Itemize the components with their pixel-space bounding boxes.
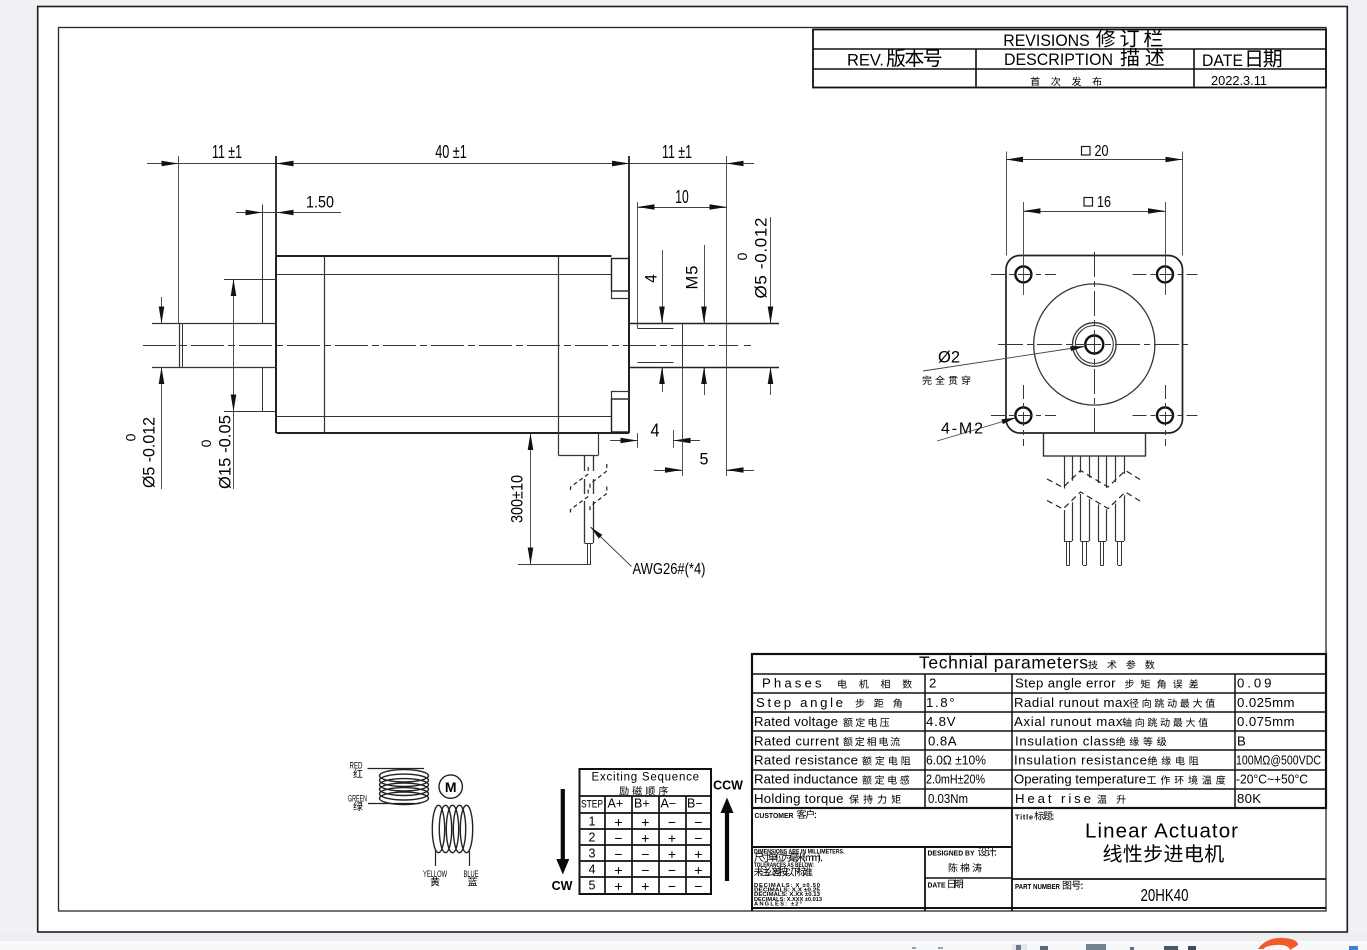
svg-text:Linear Actuator: Linear Actuator bbox=[1085, 820, 1238, 843]
dimension 11±1 screw stub length bbox=[612, 142, 744, 476]
svg-text:Insulation resistance: Insulation resistance bbox=[1014, 753, 1147, 768]
svg-text:−: − bbox=[641, 862, 649, 878]
svg-text:+: + bbox=[641, 830, 649, 846]
svg-text:0.075mm: 0.075mm bbox=[1237, 714, 1295, 729]
svg-text:+: + bbox=[614, 878, 622, 894]
svg-text:4: 4 bbox=[642, 274, 661, 283]
svg-text:Ø2: Ø2 bbox=[938, 348, 960, 367]
dimension Φ15 -0.05 boss diameter bbox=[198, 279, 236, 489]
rear boss bottom bbox=[612, 392, 630, 433]
title block grid bbox=[752, 808, 1326, 911]
svg-text:−: − bbox=[614, 846, 622, 862]
svg-text:+: + bbox=[694, 862, 702, 878]
svg-text:−: − bbox=[694, 830, 702, 846]
mounting hole centerlines bbox=[991, 275, 1198, 447]
svg-text:4.8V: 4.8V bbox=[926, 714, 956, 729]
wire lead RED bbox=[350, 761, 425, 778]
label Φ2 完全贯穿 with leader bbox=[922, 346, 1085, 385]
front view centerlines bbox=[998, 252, 1188, 433]
tolerance notes cell bbox=[754, 849, 845, 908]
wire break marks bbox=[571, 464, 607, 516]
rear boss top bbox=[612, 259, 630, 299]
svg-text:−: − bbox=[694, 878, 702, 894]
svg-text:80K: 80K bbox=[1237, 791, 1261, 806]
svg-text:Technial parameters: Technial parameters bbox=[919, 652, 1088, 672]
svg-text:Operating temperature: Operating temperature bbox=[1014, 772, 1146, 787]
svg-text:Insulation class: Insulation class bbox=[1015, 733, 1116, 748]
wire lead BLUE bbox=[464, 851, 479, 886]
svg-text:2: 2 bbox=[929, 676, 936, 691]
svg-text:PART NUMBER: PART NUMBER bbox=[1015, 882, 1061, 891]
svg-text:0: 0 bbox=[734, 252, 750, 260]
svg-text:CCW: CCW bbox=[713, 779, 743, 793]
revisions header DATE日期 bbox=[1202, 49, 1281, 70]
exciting sequence title bbox=[592, 772, 700, 796]
dimension 1.50 boss thickness bbox=[236, 193, 341, 216]
svg-text:3: 3 bbox=[589, 847, 596, 861]
revisions table grid bbox=[813, 30, 1326, 88]
svg-text:+: + bbox=[668, 846, 676, 862]
motor body inner silhouette lines bbox=[277, 257, 612, 456]
svg-text:5: 5 bbox=[700, 450, 709, 469]
svg-text:−: − bbox=[694, 814, 702, 830]
svg-text:+: + bbox=[668, 830, 676, 846]
winding diagram phase B coil bbox=[432, 805, 472, 852]
front wires lower 4 leads bbox=[1064, 494, 1125, 566]
svg-text:+: + bbox=[641, 878, 649, 894]
dimension 4 collar length bottom bbox=[610, 421, 700, 449]
svg-text:6.0Ω ±10%: 6.0Ω ±10% bbox=[926, 753, 986, 768]
dimension □20 plate size bbox=[1006, 143, 1183, 256]
svg-text:REVISIONS: REVISIONS bbox=[1003, 31, 1090, 50]
svg-text:+: + bbox=[614, 862, 622, 878]
svg-text:0.09: 0.09 bbox=[1237, 676, 1272, 691]
svg-text:DESCRIPTION: DESCRIPTION bbox=[1004, 51, 1113, 69]
svg-text:−: − bbox=[641, 846, 649, 862]
dimension 11±1 shaft length bbox=[147, 142, 754, 324]
dimension Φ5 -0.012 shaft diameter left bbox=[123, 297, 165, 489]
svg-text:1.50: 1.50 bbox=[306, 193, 334, 212]
svg-text:0: 0 bbox=[123, 433, 139, 441]
dimension 5 screw tip length bbox=[654, 367, 754, 476]
svg-text:CUSTOMER: CUSTOMER bbox=[755, 811, 795, 820]
exciting sequence header row bbox=[581, 796, 703, 810]
svg-text:16: 16 bbox=[1097, 194, 1111, 211]
svg-text:4-M2: 4-M2 bbox=[941, 421, 983, 438]
bottom taskbar strip bbox=[0, 933, 1367, 950]
svg-text:A+: A+ bbox=[608, 796, 624, 810]
svg-text:0.025mm: 0.025mm bbox=[1237, 695, 1295, 710]
svg-text:100MΩ@500VDC: 100MΩ@500VDC bbox=[1236, 753, 1321, 768]
label 4-M2 with leader bbox=[937, 418, 1017, 442]
svg-text:YELLOW: YELLOW bbox=[423, 869, 447, 879]
svg-text:4: 4 bbox=[589, 863, 596, 877]
svg-text:11 ±1: 11 ±1 bbox=[212, 142, 242, 162]
svg-text:Rated current: Rated current bbox=[754, 733, 839, 748]
dimension Φ5 -0.012 screw diameter right bbox=[734, 217, 773, 395]
svg-text:A−: A− bbox=[661, 796, 677, 810]
front wire housing block bbox=[1044, 433, 1146, 456]
svg-text:ANGLES: ±2°: ANGLES: ±2° bbox=[754, 901, 803, 907]
front view center hole Φ2 bbox=[1085, 336, 1103, 354]
svg-text:+: + bbox=[614, 814, 622, 830]
svg-text:Ø5 -0.012: Ø5 -0.012 bbox=[141, 417, 159, 488]
lead screw rear stub bbox=[629, 324, 779, 368]
CCW rotation arrow bbox=[713, 779, 743, 882]
front view face plate bbox=[1006, 256, 1183, 434]
svg-text:10: 10 bbox=[675, 187, 689, 207]
svg-text:Step angle error: Step angle error bbox=[1015, 676, 1116, 691]
svg-text:Holding torque: Holding torque bbox=[754, 791, 844, 806]
wire lead GREEN bbox=[348, 794, 420, 811]
CW rotation arrow bbox=[552, 789, 573, 893]
front shaft bbox=[152, 324, 277, 368]
winding diagram phase A coil bbox=[380, 770, 429, 805]
svg-text:M: M bbox=[445, 779, 457, 795]
customer cell bbox=[755, 810, 817, 820]
dimension 300±10 wire length bbox=[508, 432, 592, 565]
svg-text:−: − bbox=[668, 814, 676, 830]
svg-text:0.8A: 0.8A bbox=[928, 733, 957, 748]
date cell bbox=[928, 879, 964, 889]
svg-text:5: 5 bbox=[589, 879, 596, 893]
svg-text:CW: CW bbox=[552, 879, 573, 893]
svg-text:B: B bbox=[1237, 733, 1246, 748]
svg-text:RED: RED bbox=[350, 761, 363, 771]
dimension □16 hole pattern bbox=[1023, 194, 1165, 295]
front pilot boss bbox=[224, 205, 277, 412]
svg-text:REV.: REV. bbox=[847, 51, 884, 69]
svg-text:2022.3.11: 2022.3.11 bbox=[1211, 73, 1267, 88]
technical parameters title bbox=[919, 652, 1155, 672]
svg-text:−: − bbox=[668, 862, 676, 878]
svg-text:−: − bbox=[614, 830, 622, 846]
wire lead YELLOW bbox=[423, 849, 447, 886]
svg-text:Rated resistance: Rated resistance bbox=[754, 753, 858, 768]
svg-text:Step angle: Step angle bbox=[756, 695, 843, 710]
svg-text:20: 20 bbox=[1095, 143, 1109, 160]
svg-text:Ø5 -0.012: Ø5 -0.012 bbox=[752, 218, 771, 299]
revision date 2022.3.11 bbox=[1211, 73, 1267, 88]
svg-text:STEP: STEP bbox=[581, 798, 603, 810]
svg-text:20HK40: 20HK40 bbox=[1141, 885, 1189, 905]
wire exit boot bbox=[559, 433, 599, 456]
svg-text:40 ±1: 40 ±1 bbox=[435, 142, 467, 162]
svg-text:Exciting Sequence: Exciting Sequence bbox=[592, 772, 700, 784]
svg-text:Rated inductance: Rated inductance bbox=[754, 772, 858, 787]
svg-text:DATE: DATE bbox=[928, 881, 946, 890]
svg-text:0: 0 bbox=[198, 439, 214, 447]
revisions header REV.版本号 bbox=[847, 49, 941, 70]
dimension M5 thread leader bbox=[684, 245, 707, 395]
svg-text:1: 1 bbox=[589, 815, 596, 829]
dimension 10 thread length bbox=[638, 187, 727, 329]
svg-text:11 ±1: 11 ±1 bbox=[662, 142, 692, 162]
svg-text:1.8°: 1.8° bbox=[926, 695, 955, 710]
front wire break zigzag marks bbox=[1047, 471, 1140, 510]
svg-text:Title: Title bbox=[1015, 813, 1033, 822]
svg-text:B−: B− bbox=[687, 796, 703, 810]
technical parameters rows bbox=[754, 676, 1321, 806]
technical parameters table grid bbox=[752, 654, 1326, 808]
svg-text:Rated voltage: Rated voltage bbox=[754, 714, 838, 729]
svg-text:DATE: DATE bbox=[1202, 52, 1243, 70]
svg-text:Radial runout max: Radial runout max bbox=[1014, 695, 1130, 710]
motor body outline bbox=[276, 256, 629, 433]
revisions header DESCRIPTION 描述 bbox=[1004, 48, 1164, 69]
front wires upper bbox=[1065, 456, 1125, 489]
title cell bbox=[1015, 811, 1238, 863]
dimension 40±1 body length bbox=[276, 142, 629, 257]
svg-text:2.0mH±20%: 2.0mH±20% bbox=[926, 772, 985, 787]
motor lead wire bundle bbox=[585, 456, 594, 565]
dimension 4 screw shank leader bbox=[642, 250, 665, 392]
svg-text:2: 2 bbox=[589, 831, 596, 845]
svg-text:300±10: 300±10 bbox=[508, 475, 527, 523]
svg-text:+: + bbox=[641, 814, 649, 830]
svg-text:0.03Nm: 0.03Nm bbox=[928, 791, 968, 806]
motor symbol M bbox=[439, 775, 462, 798]
exciting sequence step rows bbox=[589, 814, 703, 894]
revisions table title REVISIONS 修订栏 bbox=[1003, 29, 1162, 50]
svg-text:AWG26#(*4): AWG26#(*4) bbox=[633, 561, 706, 578]
svg-text:-20°C~+50°C: -20°C~+50°C bbox=[1236, 772, 1308, 787]
svg-text:−: − bbox=[668, 878, 676, 894]
svg-text:Ø15 -0.05: Ø15 -0.05 bbox=[217, 415, 235, 489]
side view centerline bbox=[143, 345, 751, 347]
designed by cell bbox=[928, 847, 997, 872]
front view mounting holes 4-M2 bbox=[1015, 266, 1173, 423]
part number cell bbox=[1015, 881, 1189, 905]
front view motor circle bbox=[1034, 284, 1155, 405]
svg-text:M5: M5 bbox=[684, 266, 702, 290]
svg-text:DESIGNED BY: DESIGNED BY bbox=[928, 849, 975, 858]
front view screw thread circles bbox=[1073, 323, 1117, 367]
svg-text:B+: B+ bbox=[634, 796, 650, 810]
svg-text:4: 4 bbox=[651, 421, 660, 441]
svg-text:Axial runout max: Axial runout max bbox=[1014, 714, 1123, 729]
exciting sequence table grid bbox=[580, 769, 712, 894]
revision entry 首次发布 bbox=[1031, 77, 1102, 86]
label AWG26#(*4) with leader bbox=[591, 527, 706, 578]
svg-text:+: + bbox=[694, 846, 702, 862]
